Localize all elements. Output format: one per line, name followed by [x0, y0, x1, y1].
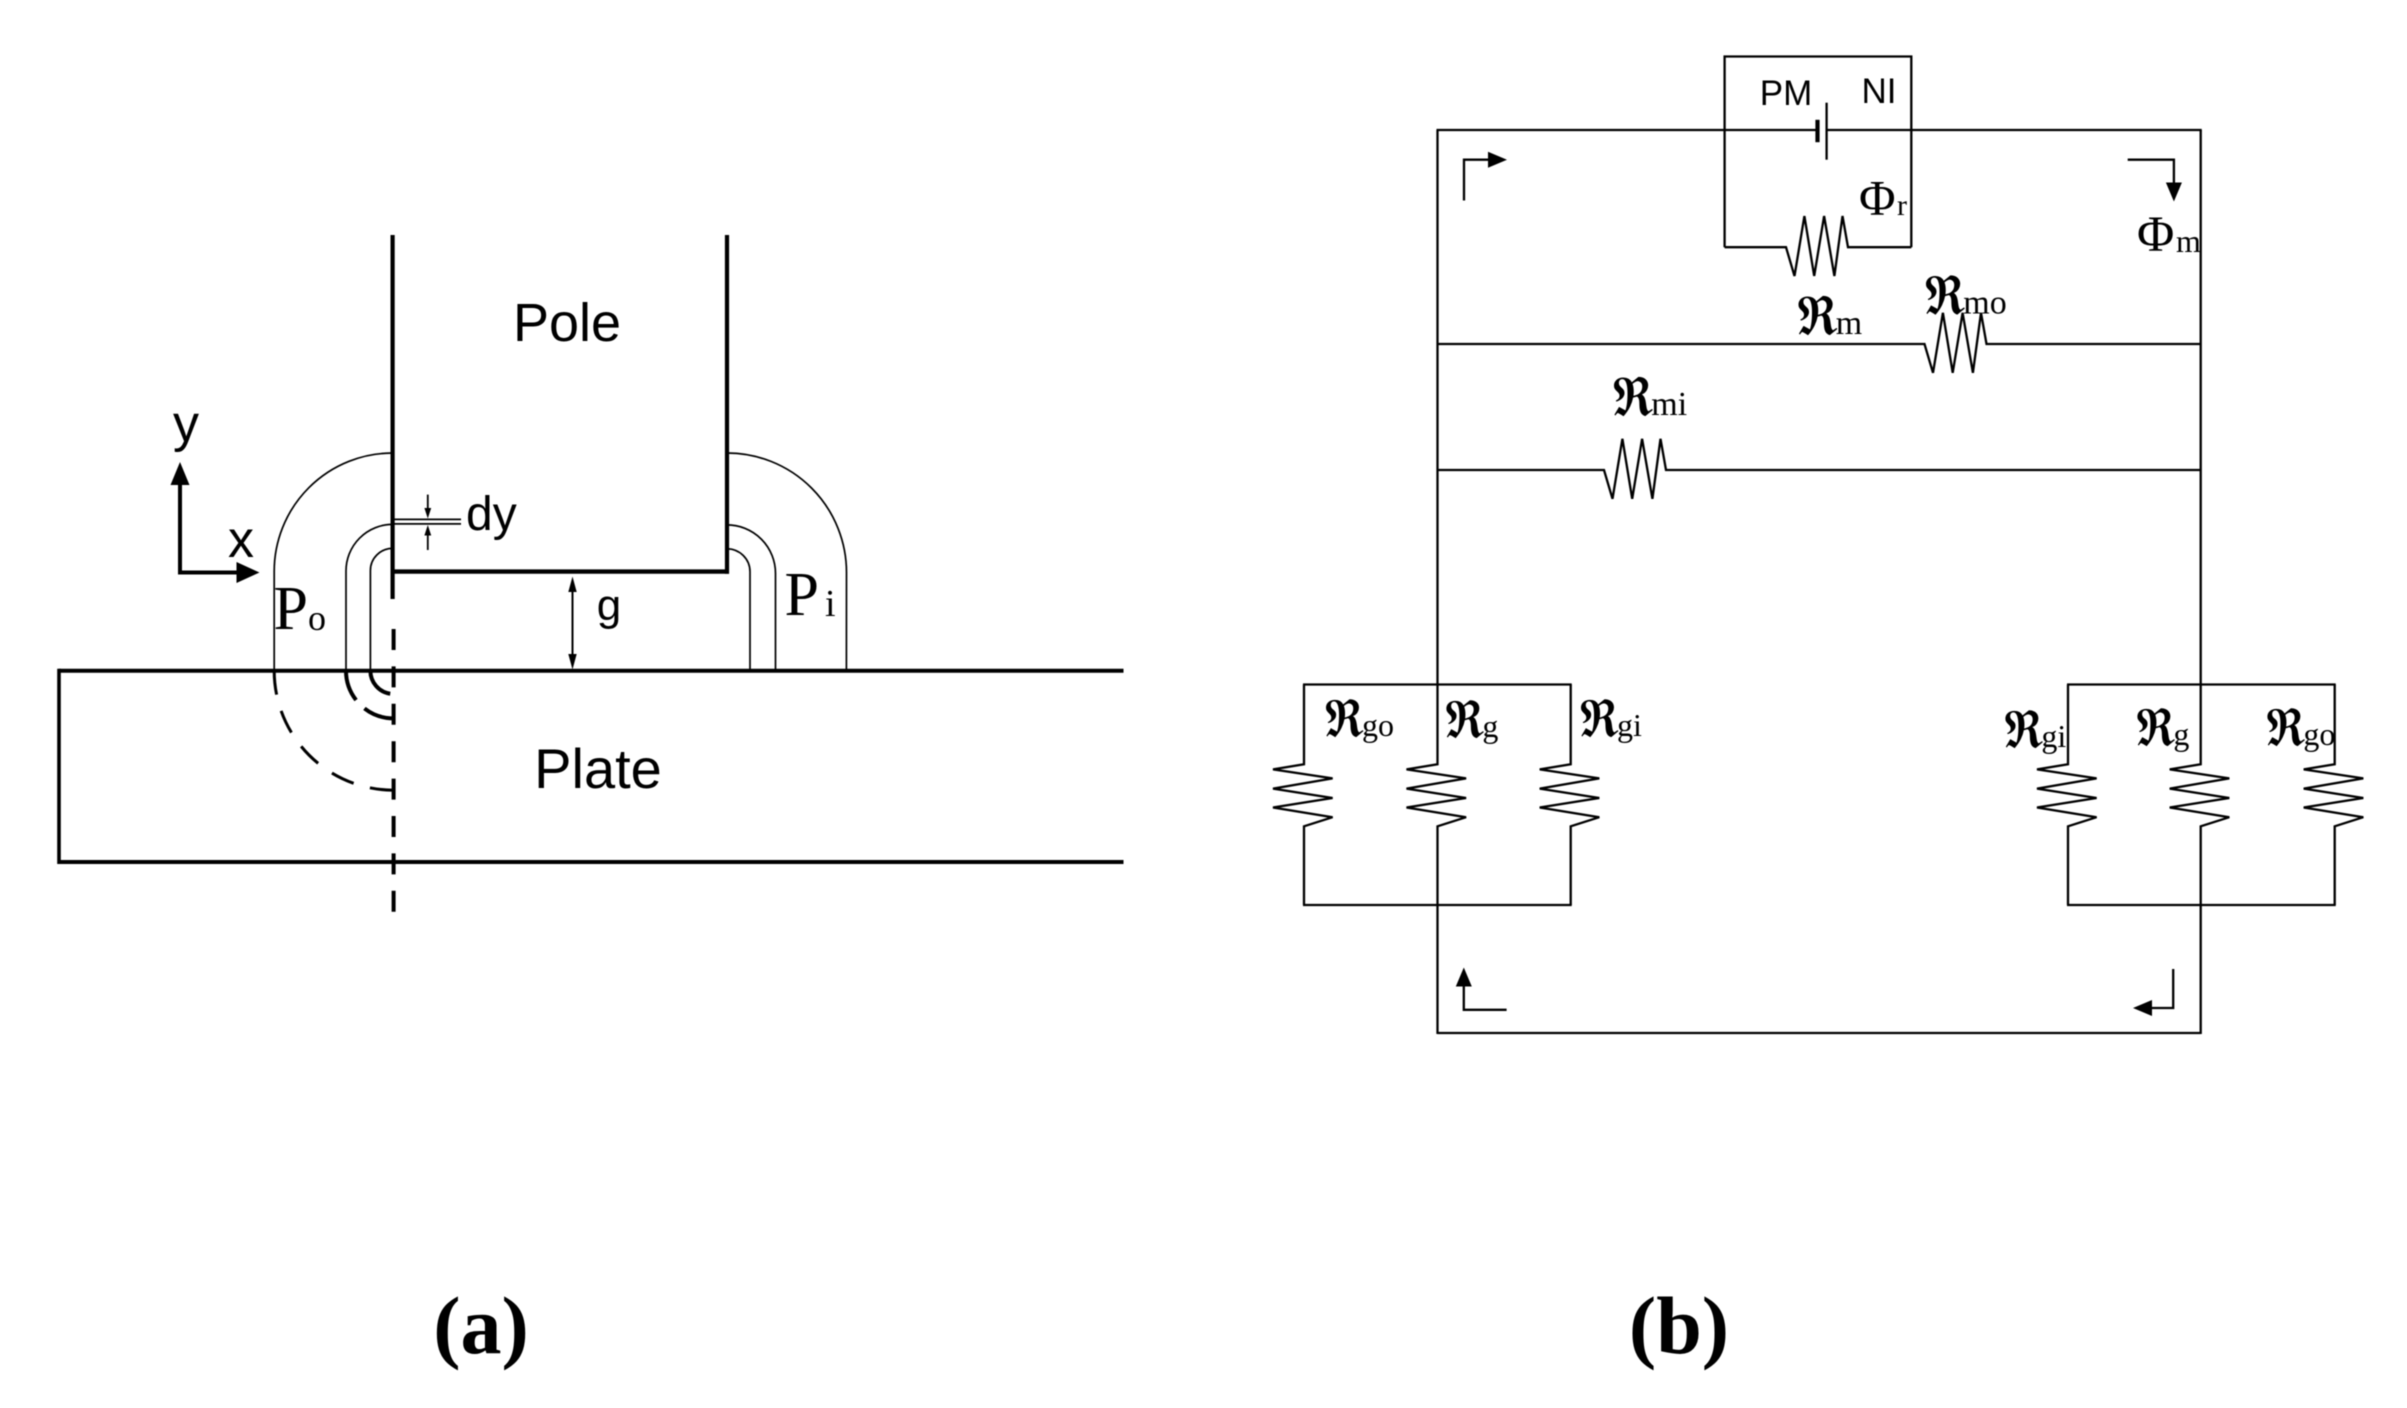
- label Rgi right: [2005, 710, 2042, 748]
- middle fringing flux line left: [346, 524, 393, 670]
- top wire left segment: [1437, 129, 1818, 131]
- symmetry axis dashed centerline: [392, 629, 396, 912]
- plate left edge: [57, 669, 61, 864]
- middle fringing flux line right: [727, 525, 776, 671]
- label Rmo: [1926, 275, 1965, 314]
- MMF source battery short plate: [1815, 120, 1819, 142]
- outer fringing flux line left Po: [274, 453, 392, 671]
- svg-text:P: P: [785, 561, 819, 629]
- resistor Rm on box bottom edge: [1725, 216, 1912, 276]
- resistor Rg right: [2170, 685, 2230, 906]
- left gap group top bus: [1303, 683, 1572, 685]
- flux direction arrow bottom left: [1464, 985, 1507, 1010]
- svg-text:P: P: [274, 575, 308, 643]
- flux direction arrow top left: [1464, 160, 1490, 201]
- resistor Rgo left: [1273, 685, 1333, 906]
- svg-text:Φ: Φ: [1859, 170, 1896, 226]
- resistor Rgi right: [2037, 685, 2097, 906]
- left vertical wire lower: [1436, 905, 1438, 1034]
- inner flux return arc: [370, 671, 393, 694]
- svg-text:g: g: [597, 581, 621, 630]
- svg-text:Plate: Plate: [534, 737, 662, 800]
- dy element upper line: [391, 518, 461, 520]
- svg-text:Pole: Pole: [513, 293, 621, 353]
- dy lower extension arrow: [427, 532, 429, 550]
- right vertical wire upper: [2200, 130, 2202, 685]
- inner fringing flux line right: [727, 549, 750, 671]
- pole right edge: [725, 235, 729, 574]
- right gap group top bus: [2067, 683, 2336, 685]
- pole left edge: [391, 235, 395, 599]
- y axis arrow: [178, 484, 182, 573]
- label Rgi left: [1581, 699, 1618, 737]
- svg-text:m: m: [2176, 223, 2201, 259]
- label Rm: [1798, 296, 1837, 335]
- dy upper extension arrow: [427, 495, 429, 511]
- svg-text:g: g: [2173, 716, 2189, 752]
- top wire right segment: [1827, 129, 2202, 131]
- svg-text:o: o: [308, 598, 326, 638]
- svg-text:PM: PM: [1760, 74, 1813, 113]
- pole bottom face: [391, 569, 729, 573]
- inner fringing flux line left: [370, 548, 392, 670]
- x axis arrow: [178, 571, 237, 575]
- label Rmi: [1614, 377, 1653, 416]
- svg-text:NI: NI: [1862, 72, 1897, 111]
- label Rg right: [2137, 708, 2174, 746]
- svg-text:Φ: Φ: [2137, 207, 2174, 263]
- plate bottom edge: [59, 860, 1124, 864]
- middle wire with resistor Rmo: [1438, 313, 2201, 373]
- svg-text:dy: dy: [466, 488, 517, 541]
- resistor Rgi left: [1540, 685, 1600, 906]
- flux direction arrow top right: [2128, 160, 2174, 184]
- svg-text:mi: mi: [1651, 386, 1687, 423]
- svg-text:(a): (a): [433, 1280, 529, 1371]
- PM NI source box: [1725, 57, 1912, 248]
- svg-text:g: g: [1482, 708, 1498, 744]
- right gap group bottom bus: [2067, 904, 2336, 906]
- resistor Rgo right: [2304, 685, 2364, 906]
- lower wire with resistor Rmi: [1438, 439, 2201, 499]
- outer dashed flux return arc: [274, 671, 393, 790]
- svg-text:i: i: [825, 583, 836, 625]
- bottom return wire: [1438, 1032, 2201, 1034]
- resistor Rg left: [1407, 685, 1467, 906]
- svg-text:x: x: [228, 511, 254, 569]
- middle dashed flux return arc: [346, 671, 394, 719]
- outer fringing flux line right Pi: [727, 453, 847, 671]
- left gap group bottom bus: [1303, 904, 1572, 906]
- MMF source battery long plate: [1825, 103, 1827, 160]
- svg-text:(b): (b): [1629, 1280, 1729, 1371]
- svg-text:go: go: [2303, 716, 2335, 752]
- svg-text:mo: mo: [1963, 285, 2006, 322]
- label Rgo left: [1326, 699, 1363, 737]
- svg-text:m: m: [1836, 305, 1862, 342]
- gap dimension arrow g: [572, 584, 574, 662]
- svg-text:r: r: [1897, 189, 1907, 222]
- flux direction arrow bottom right: [2143, 969, 2173, 1008]
- dy element lower line: [391, 523, 461, 525]
- right vertical wire lower: [2200, 905, 2202, 1034]
- left vertical wire upper: [1436, 130, 1438, 685]
- plate top surface: [59, 669, 1124, 673]
- label Rgo right: [2267, 708, 2304, 746]
- label Rg left: [1446, 700, 1483, 738]
- svg-text:gi: gi: [1617, 707, 1642, 743]
- svg-text:go: go: [1362, 707, 1394, 743]
- svg-text:gi: gi: [2041, 718, 2066, 754]
- svg-text:y: y: [173, 395, 199, 453]
